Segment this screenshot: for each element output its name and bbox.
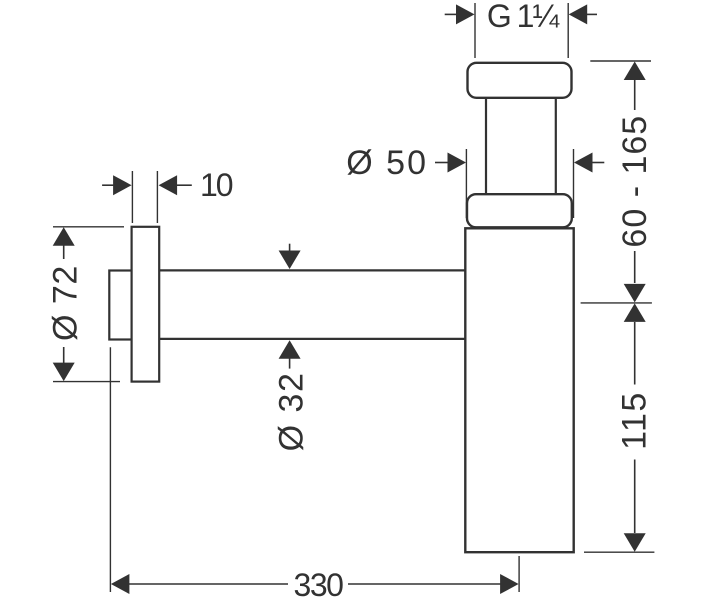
top inlet flange <box>468 63 572 98</box>
svg-text:115: 115 <box>616 391 654 450</box>
svg-text:60 - 165: 60 - 165 <box>616 115 654 248</box>
adjustable neck tube <box>486 98 556 194</box>
trap body cup <box>465 228 573 552</box>
svg-text:10: 10 <box>200 167 233 203</box>
svg-text:Ø 50: Ø 50 <box>346 144 428 182</box>
svg-text:Ø 32: Ø 32 <box>273 372 311 452</box>
horizontal outlet pipe <box>159 270 465 339</box>
svg-text:330: 330 <box>294 567 344 600</box>
dimension D50 left arrow <box>435 153 466 173</box>
dimension 60-165 extension lines <box>581 61 652 303</box>
dimension D32 lower arrow <box>279 340 301 368</box>
dimension D50 extension lines <box>466 149 573 218</box>
dimension D72 line and arrows <box>53 227 75 381</box>
svg-text:G 1¼: G 1¼ <box>487 0 561 34</box>
dimension G 1 1/4 right arrow <box>569 4 597 24</box>
dimension 115 line and arrows <box>624 303 646 551</box>
dimension 330 extension lines <box>110 347 519 592</box>
svg-text:Ø 72: Ø 72 <box>47 265 85 341</box>
dimension 10 extension lines <box>132 171 157 223</box>
dimension 115 bottom extension line <box>584 551 654 553</box>
dimension 330 line and arrows <box>111 574 519 594</box>
dimension 10 right arrow <box>159 175 192 195</box>
wall socket (pipe stub behind flange) <box>109 271 133 340</box>
dimension D32 upper arrow <box>279 244 301 269</box>
dimension 10 left arrow <box>102 175 132 195</box>
dimension D50 right arrow <box>574 153 604 173</box>
union nut <box>467 194 572 227</box>
dimension 60-165 line and arrows <box>624 62 646 303</box>
dimension G 1 1/4 left arrow <box>445 4 475 24</box>
wall flange plate <box>132 227 160 382</box>
dimension D72 extension lines <box>53 227 124 382</box>
dimension G 1 1/4 extension lines <box>475 3 568 58</box>
